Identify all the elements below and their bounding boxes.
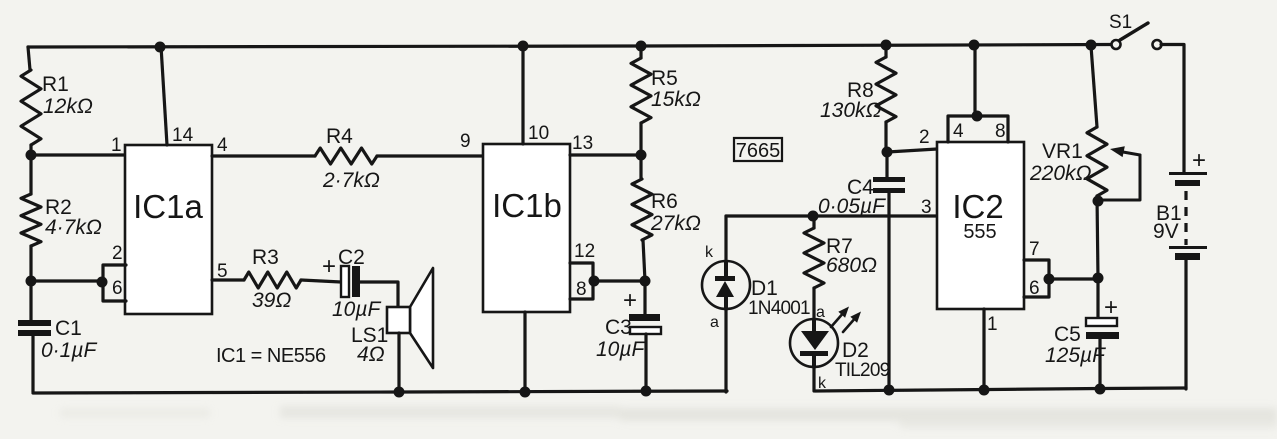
svg-text:125µF: 125µF xyxy=(1045,344,1106,367)
svg-text:12kΩ: 12kΩ xyxy=(43,95,93,118)
svg-text:10: 10 xyxy=(528,123,549,144)
svg-text:555: 555 xyxy=(963,221,996,243)
svg-text:8: 8 xyxy=(576,279,587,300)
svg-text:0·05µF: 0·05µF xyxy=(818,195,886,218)
svg-text:7: 7 xyxy=(1029,239,1040,260)
svg-text:9V: 9V xyxy=(1153,220,1179,243)
svg-text:1N4001: 1N4001 xyxy=(748,298,810,319)
svg-text:27kΩ: 27kΩ xyxy=(650,212,701,235)
svg-text:+: + xyxy=(623,287,637,314)
svg-text:680Ω: 680Ω xyxy=(826,254,877,277)
svg-text:14: 14 xyxy=(172,125,194,146)
svg-text:1: 1 xyxy=(987,314,998,335)
svg-text:C1: C1 xyxy=(55,317,82,340)
svg-text:+: + xyxy=(1104,294,1118,321)
svg-text:39Ω: 39Ω xyxy=(252,289,291,312)
svg-text:13: 13 xyxy=(572,133,593,154)
svg-text:IC1a: IC1a xyxy=(133,188,203,225)
svg-text:IC1 = NE556: IC1 = NE556 xyxy=(216,345,326,367)
svg-text:R5: R5 xyxy=(651,67,678,90)
svg-text:15kΩ: 15kΩ xyxy=(651,88,701,111)
svg-text:R1: R1 xyxy=(42,73,69,96)
svg-text:10µF: 10µF xyxy=(332,298,381,321)
svg-text:R3: R3 xyxy=(252,246,279,269)
svg-text:C3: C3 xyxy=(605,316,632,339)
svg-text:4: 4 xyxy=(953,121,964,142)
svg-text:4: 4 xyxy=(217,135,228,156)
svg-text:VR1: VR1 xyxy=(1042,140,1083,163)
svg-text:4·7kΩ: 4·7kΩ xyxy=(45,216,102,239)
svg-text:C5: C5 xyxy=(1054,323,1081,346)
svg-text:D2: D2 xyxy=(842,339,869,362)
svg-text:+: + xyxy=(1192,147,1206,174)
svg-text:IC2: IC2 xyxy=(952,188,1003,225)
svg-text:C2: C2 xyxy=(338,246,365,269)
svg-text:3: 3 xyxy=(921,197,932,218)
svg-text:R4: R4 xyxy=(326,125,353,148)
svg-text:4Ω: 4Ω xyxy=(357,343,385,366)
svg-text:a: a xyxy=(710,314,719,331)
svg-text:k: k xyxy=(818,375,827,392)
svg-text:6: 6 xyxy=(112,278,123,299)
svg-text:9: 9 xyxy=(460,131,471,152)
svg-text:a: a xyxy=(816,304,825,321)
svg-text:S1: S1 xyxy=(1109,12,1132,33)
svg-text:12: 12 xyxy=(574,241,595,262)
svg-text:2: 2 xyxy=(919,127,930,148)
svg-text:10µF: 10µF xyxy=(596,338,645,361)
svg-text:R6: R6 xyxy=(651,190,678,213)
svg-text:2·7kΩ: 2·7kΩ xyxy=(322,169,380,192)
svg-text:TIL209: TIL209 xyxy=(835,360,890,381)
svg-text:0·1µF: 0·1µF xyxy=(41,339,97,362)
svg-text:130kΩ: 130kΩ xyxy=(820,99,882,122)
svg-text:2: 2 xyxy=(112,243,123,264)
svg-text:5: 5 xyxy=(217,261,228,282)
svg-text:k: k xyxy=(705,244,714,261)
svg-text:8: 8 xyxy=(995,121,1006,142)
svg-text:IC1b: IC1b xyxy=(492,187,562,224)
svg-text:220kΩ: 220kΩ xyxy=(1029,162,1092,185)
svg-text:D1: D1 xyxy=(751,277,778,300)
svg-text:7665: 7665 xyxy=(736,140,781,162)
svg-text:+: + xyxy=(322,253,336,280)
svg-text:1: 1 xyxy=(111,135,122,156)
svg-text:6: 6 xyxy=(1029,278,1040,299)
